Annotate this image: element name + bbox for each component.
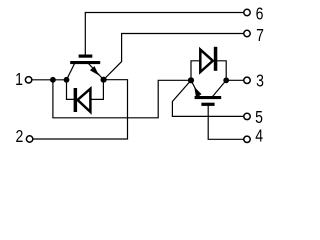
wire pin 3 to Q2 collector node xyxy=(226,79,243,81)
wire diode D2 cathode to Q2 collector node xyxy=(217,61,226,81)
terminal circle pin 2 xyxy=(26,136,32,142)
svg-text:7: 7 xyxy=(256,25,264,45)
junction dot Q2 collector node xyxy=(223,77,229,83)
svg-text:2: 2 xyxy=(15,127,23,147)
IGBT Q2 emitter arrowhead xyxy=(194,87,201,97)
wire pin 4 to Q2 gate xyxy=(208,106,243,139)
svg-text:6: 6 xyxy=(256,4,264,24)
svg-text:3: 3 xyxy=(256,71,264,91)
svg-text:5: 5 xyxy=(255,107,263,127)
junction dot Q1 emitter node xyxy=(101,77,107,83)
terminal circle pin 6 xyxy=(244,9,250,15)
junction dot node pin1-b Q1 collector xyxy=(64,77,70,83)
diode D1 triangle (points left) xyxy=(78,89,91,112)
diode D1 cathode bar xyxy=(74,88,78,112)
IGBT Q2 emitter diagonal xyxy=(191,80,199,96)
wire pin 1 to Q1 collector node xyxy=(32,79,67,81)
terminal circle pin 3 xyxy=(244,77,250,83)
junction dot Q2 emitter node xyxy=(188,77,194,83)
wire pin 6 to Q1 gate xyxy=(85,13,243,55)
wire pin 7 to Q1 emitter node xyxy=(104,34,244,80)
wire diode D2 anode to Q2 emitter node xyxy=(191,61,199,81)
IGBT Q1 emitter diagonal xyxy=(89,64,104,80)
terminal circle pin 7 xyxy=(244,30,250,36)
svg-text:1: 1 xyxy=(15,69,23,89)
IGBT Q2 collector diagonal xyxy=(213,80,227,96)
IGBT Q1 channel bar xyxy=(70,61,100,64)
wire diode D1 anode to Q1 emitter node xyxy=(92,80,104,100)
terminal circle pin 5 xyxy=(244,113,250,119)
junction dot node pin1-a xyxy=(50,77,56,83)
terminal circle pin 1 xyxy=(25,77,31,83)
svg-text:4: 4 xyxy=(255,126,263,146)
IGBT Q2 channel bar xyxy=(195,96,222,99)
wire pin 5 to Q2 emitter node xyxy=(172,80,243,116)
wire node A midpoint link (pin1 node to Q2 emitter node) xyxy=(53,80,191,118)
IGBT Q1 gate bar xyxy=(79,55,93,58)
diode D2 cathode bar xyxy=(214,47,218,71)
IGBT Q1 emitter arrowhead xyxy=(90,66,99,75)
terminal circle pin 4 xyxy=(244,136,250,142)
wire diode D1 cathode to Q1 collector node xyxy=(67,80,74,100)
diode D2 triangle (points right) xyxy=(200,50,213,72)
IGBT Q1 collector diagonal xyxy=(67,63,75,80)
wire pin 2 to Q1 emitter node xyxy=(33,80,128,139)
IGBT Q2 gate bar xyxy=(201,103,214,106)
